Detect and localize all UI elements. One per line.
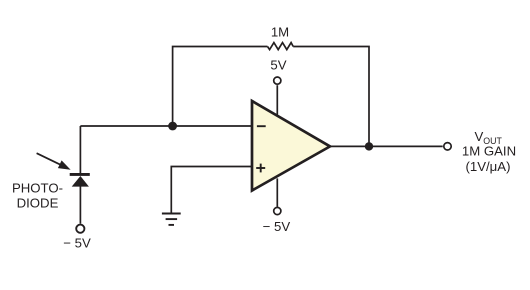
svg-text:− 5V: − 5V	[63, 236, 91, 251]
svg-text:5V: 5V	[270, 58, 286, 73]
label DIODE	[17, 195, 59, 210]
photodiode light arrow	[37, 153, 71, 170]
terminal -5V photodiode	[76, 225, 84, 233]
label PHOTO-	[12, 181, 63, 196]
label 5V	[270, 58, 286, 73]
label 1V per uA	[466, 159, 511, 174]
photodiode D1 anode triangle	[72, 176, 89, 187]
wire feedback top right horizontal and down to output node	[293, 47, 369, 147]
node B junction dot output	[365, 142, 373, 150]
terminal 5V	[274, 77, 281, 84]
resistor R1 1M zigzag	[268, 43, 294, 50]
ground	[162, 214, 181, 225]
svg-text:1M GAIN: 1M GAIN	[462, 144, 516, 159]
svg-text:DIODE: DIODE	[17, 195, 59, 210]
terminal -5V opamp	[274, 207, 281, 214]
op-amp U1 body	[252, 101, 330, 191]
wire non-inverting input to ground	[171, 167, 252, 213]
label -5V opamp	[263, 219, 291, 234]
op-amp U1 minus sign	[257, 125, 266, 127]
wire -5V supply	[276, 178, 278, 206]
wire 5V supply	[276, 85, 278, 114]
node A junction dot inverting input	[168, 122, 177, 131]
op-amp U1 plus sign	[256, 164, 265, 173]
wire feedback top left horizontal	[173, 47, 268, 127]
svg-text:1M: 1M	[271, 25, 289, 40]
wire photodiode vertical bottom	[79, 186, 81, 224]
label -5V photodiode	[63, 236, 91, 251]
terminal output	[444, 143, 451, 150]
label 1M GAIN	[462, 144, 516, 159]
label 1M resistor value	[271, 25, 289, 40]
wire inverting input horizontal	[80, 125, 252, 127]
label VOUT	[475, 129, 503, 146]
wire photodiode vertical top	[79, 126, 81, 174]
svg-text:PHOTO-: PHOTO-	[12, 181, 63, 196]
photodiode D1 cathode bar	[70, 173, 90, 176]
svg-text:− 5V: − 5V	[263, 219, 291, 234]
wire output	[330, 145, 443, 147]
svg-text:(1V/μA): (1V/μA)	[466, 159, 511, 174]
